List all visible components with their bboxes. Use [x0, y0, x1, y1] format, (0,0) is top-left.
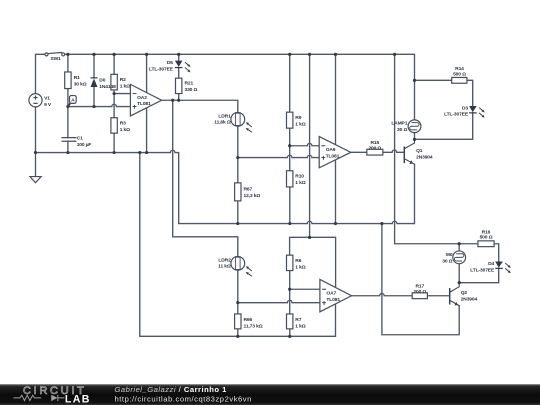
resistor R3: [111, 118, 117, 133]
wire net OA9 output to R15 to Q1 base with hop: [351, 150, 405, 152]
junction: mid ground rail taps: [236, 222, 383, 225]
footer logo doodle (resistor + diode): [14, 395, 65, 401]
wire net +9V: V1 top lead: [36, 54, 46, 93]
junction: OA7 non-inverting tap: [236, 301, 239, 304]
photoresistor LDR2: [231, 256, 252, 276]
wire net GND: R66 and R7 bottom leads: [238, 329, 290, 337]
junction: M2 bottom / Q2 collector node: [458, 281, 461, 284]
svg-text:http://circuitlab.com/cqt83zp2: http://circuitlab.com/cqt83zp2vk6vn: [115, 394, 252, 403]
wire net +9V: R1, D0, R2, R9 top leads: [68, 54, 290, 112]
junction: +9V top rail taps: [66, 53, 416, 82]
wire net +9V: R14 branch leads: [415, 80, 473, 106]
junction: node A taps: [66, 105, 95, 108]
wire net OA9 inverting: R9 bottom, tap to OA9 -, R10 top: [290, 128, 320, 171]
wire net GND: upper ground rail with hop, down to mid rail, to Q1 emitter: [36, 150, 415, 223]
junction: OA2 inverting tap: [113, 92, 116, 95]
svg-text:SW1: SW1: [51, 56, 62, 62]
wire net OA2 inverting: R2/R3 divider tap: [114, 90, 130, 118]
junction: Q1 collector node: [413, 138, 416, 141]
lamp M2: [453, 251, 466, 264]
junction: OA7 inverting tap: [288, 288, 291, 291]
wire net GND: OA9 V- stub, R67 and R10 bottom leads: [238, 160, 336, 224]
wire net OA7 inverting: R6 bottom, tap, R7 top: [290, 271, 320, 314]
resistor R66: [235, 314, 241, 329]
wire net +9V: top rail from SW1 to right corner: [65, 54, 415, 120]
wire net M2 bottom / D4 return / Q2 collector: [459, 264, 499, 283]
resistor R10: [287, 171, 293, 187]
junction: OA9 inverting tap: [288, 144, 291, 147]
battery V1: [29, 94, 42, 107]
wire net GND: left drop to bottom rail and OA7 V-: [140, 153, 336, 337]
junction: OA2 output taps: [171, 99, 180, 102]
LED D4: [495, 262, 511, 274]
resistor R6: [287, 255, 293, 270]
resistor R1: [65, 72, 71, 89]
wire net M2 top lead: [458, 244, 460, 251]
wire net GND: drop to Q2 emitter rail: [382, 224, 459, 335]
wire net LDR1/OA9+: LDR1 bottom to OA9 + with hops, R67 top: [238, 126, 319, 183]
junction: upper ground rail taps: [34, 151, 148, 154]
resistor R9: [287, 112, 293, 128]
wire net OA2 output: drop to LDR2: [173, 100, 238, 256]
junction: bottom ground rail taps: [236, 335, 291, 338]
junction: M2 top node: [458, 242, 461, 245]
transistor Q1: [404, 139, 414, 164]
wire net +9V: D5 anode lead: [178, 54, 180, 60]
op-amp OA2: [130, 84, 161, 116]
wire net +9V: feed to lower-middle (R6 / OA7 V+): [290, 54, 336, 287]
LED D3: [469, 106, 485, 118]
resistor R67: [235, 183, 241, 201]
resistor R17: [412, 293, 427, 299]
resistor R14: [452, 77, 467, 83]
wire net GND: V1 bottom lead and ground stub: [35, 107, 37, 177]
photoresistor LDR1: [231, 112, 252, 132]
wire net +9V: feed to lower-right (M2 / R16): [395, 54, 499, 261]
LED D5: [175, 61, 191, 73]
resistor R2: [111, 74, 117, 90]
wire net GND: C1, R3 bottom leads, OA2 V- stub: [68, 108, 147, 153]
wire net Q1 collector: LAMP1 bottom, D3 return: [415, 113, 473, 140]
switch SW1: [45, 52, 65, 56]
wire net +9V: OA9 V+ stub: [335, 54, 337, 144]
wire net OA7 non-inverting: LDR2 bottom, wire with hop, R66 top: [238, 270, 320, 314]
lamp LAMP1: [408, 120, 421, 133]
wire net OA2 output to LDR1 and R21: [162, 94, 238, 113]
svg-text:Gabriel_Galazzi / Carrinho 1: Gabriel_Galazzi / Carrinho 1: [115, 385, 228, 394]
footer bar: [0, 384, 540, 405]
ground: [30, 177, 41, 183]
svg-text:LAB: LAB: [65, 393, 91, 405]
resistor R21: [176, 78, 182, 93]
diode D0: [91, 78, 98, 87]
resistor R15: [367, 149, 383, 155]
junction: LDR1 bottom tap: [236, 156, 239, 159]
junction: +9V lower feed tap: [308, 236, 311, 239]
capacitor C1: [62, 138, 77, 142]
wire net +9V: OA2 V+ stub: [146, 54, 148, 92]
transistor Q2: [450, 283, 460, 306]
wire net A: R1 bottom, node wire with hop, D0 anode, C1 top: [68, 87, 131, 138]
wire net LAMP1 top lead is part of rail corner; R21/D5 link: [178, 68, 180, 79]
svg-text:A: A: [71, 98, 75, 104]
op-amp OA9: [319, 137, 351, 168]
op-amp OA7: [320, 279, 352, 311]
node A flag: [68, 96, 76, 107]
wire net OA7 output to R17 to Q2 base with hop: [352, 293, 450, 295]
resistor R7: [287, 314, 293, 329]
resistor R16: [478, 241, 494, 247]
